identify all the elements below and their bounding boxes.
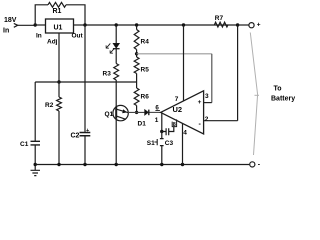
- svg-text:R5: R5: [141, 67, 150, 74]
- node rail at LED: [115, 23, 118, 26]
- svg-text:In: In: [3, 28, 9, 35]
- node input junction: [34, 23, 37, 26]
- svg-text:3: 3: [205, 93, 209, 100]
- node rail at pin7 wire: [182, 23, 185, 26]
- svg-text:R2: R2: [45, 102, 54, 109]
- capacitor C2: [80, 133, 91, 136]
- node bottom at C2: [83, 163, 86, 166]
- label To Battery: [271, 86, 295, 103]
- resistor R7: [215, 22, 229, 27]
- callout line to battery: [250, 33, 257, 156]
- node bottom at R2: [57, 163, 60, 166]
- resistor R5: [134, 57, 139, 74]
- wire bus left corner down to C1: [34, 82, 36, 165]
- node rail at output: [236, 23, 239, 26]
- node bottom at pin4: [181, 163, 184, 166]
- resistor R3: [114, 64, 119, 81]
- svg-text:R3: R3: [103, 71, 112, 78]
- wire Q1 emitter to D1: [128, 111, 145, 113]
- node bottom at Q1: [115, 163, 118, 166]
- LED: [113, 43, 120, 48]
- wire C2 branch: [84, 25, 86, 165]
- svg-text:R1: R1: [53, 8, 62, 15]
- svg-text:Adj: Adj: [47, 39, 58, 46]
- switch S1: [160, 132, 164, 165]
- regulator U1: [46, 19, 74, 33]
- node rail at R1/C2: [83, 23, 86, 26]
- svg-text:S1: S1: [147, 140, 155, 147]
- svg-text:+: +: [86, 128, 89, 134]
- svg-text:Battery: Battery: [271, 96, 295, 103]
- LED arrow 2: [110, 48, 114, 53]
- wire junction to U1 In pin: [35, 24, 45, 26]
- capacitor C3: [162, 127, 174, 136]
- node rail at R4: [135, 23, 138, 26]
- node R4/R5 junction: [135, 52, 138, 55]
- node adj bus junction: [57, 80, 60, 83]
- svg-text:+: +: [198, 99, 202, 106]
- wire rail to + terminal: [238, 24, 249, 26]
- node bottom at S1: [160, 163, 163, 166]
- wire R6 top to bus / bottom to emitter wire: [136, 82, 138, 112]
- wire pin 2 to output node: [204, 25, 238, 121]
- diode D1: [145, 110, 149, 116]
- svg-text:C2: C2: [71, 133, 80, 140]
- wire bus horizontal: [35, 81, 136, 83]
- wire U2 vertex down to C3: [161, 112, 163, 131]
- svg-text:R4: R4: [141, 39, 150, 46]
- wire adj junction to R2: [58, 82, 60, 165]
- wire pin 4 to bottom rail: [182, 123, 184, 164]
- svg-text:R7: R7: [215, 15, 224, 22]
- wire pin 7 to top rail: [183, 25, 185, 101]
- svg-text:In: In: [36, 33, 42, 40]
- svg-text:D1: D1: [138, 121, 147, 128]
- wire R1 branch up and across: [35, 5, 85, 25]
- wire R3 bottom to bus: [115, 80, 117, 82]
- wire adj pin down: [58, 33, 60, 82]
- wire LED branch: [115, 25, 117, 64]
- resistor R6: [134, 88, 139, 106]
- node C3 tee: [160, 130, 163, 133]
- terminal - output: [250, 162, 255, 167]
- resistor R2: [57, 97, 62, 111]
- svg-text:To: To: [274, 86, 282, 93]
- svg-text:U1: U1: [54, 25, 63, 32]
- svg-text:1: 1: [155, 117, 159, 124]
- wire gray from R4/R5 junction to pin 3: [137, 53, 212, 55]
- wire D1 to U2 vertex: [150, 111, 161, 113]
- svg-text:C1: C1: [20, 141, 29, 148]
- svg-text:2: 2: [205, 116, 209, 123]
- node ground junction: [34, 163, 37, 166]
- LED arrow 1: [106, 43, 110, 48]
- svg-text:Out: Out: [72, 33, 84, 40]
- node R6/D1 junction: [135, 111, 138, 114]
- op-amp U2: [161, 91, 209, 137]
- wire bus to Q1 base: [115, 82, 117, 107]
- capacitor C1: [31, 141, 41, 145]
- ground: [31, 165, 41, 176]
- wire bottom rail: [35, 164, 249, 166]
- svg-text:18V: 18V: [4, 17, 17, 24]
- resistor R1: [48, 2, 66, 7]
- pin 1 label: [155, 117, 159, 124]
- svg-text:7: 7: [175, 96, 179, 103]
- wire U1 out to top rail: [74, 24, 86, 26]
- svg-text:Q1: Q1: [105, 111, 114, 118]
- svg-text:U2: U2: [173, 105, 183, 114]
- input arrow: [14, 23, 18, 27]
- resistor R4: [134, 30, 139, 50]
- svg-text:R6: R6: [141, 94, 150, 101]
- svg-text:C3: C3: [165, 140, 174, 147]
- terminal + output: [249, 23, 254, 28]
- wire input to junction: [18, 24, 36, 26]
- transistor Q1: [113, 105, 128, 164]
- wire top rail: [85, 24, 238, 26]
- pin 6 label: [155, 105, 159, 112]
- pin 8 box: [172, 119, 176, 126]
- svg-text:+: +: [257, 21, 261, 28]
- svg-text:4: 4: [183, 130, 187, 137]
- label 18V In: [3, 17, 17, 35]
- wire R4 branch: [136, 25, 138, 82]
